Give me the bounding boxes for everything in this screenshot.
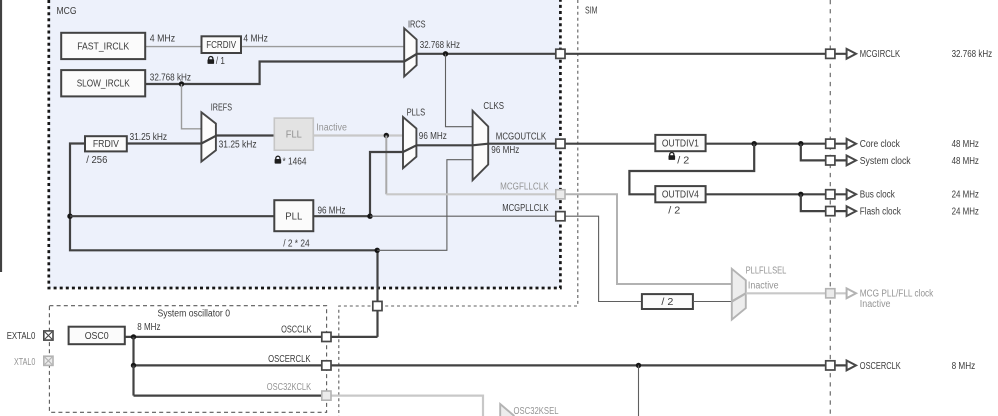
- port System clock (SIM border): [826, 156, 835, 165]
- svg-text:48 MHz: 48 MHz: [952, 139, 979, 150]
- arrow System clock: [847, 156, 856, 166]
- mux CLKS: [473, 111, 489, 180]
- svg-text:96 MHz: 96 MHz: [491, 145, 519, 156]
- wire stub Bus clock port to arrow: [830, 193, 847, 195]
- svg-text:OUTDIV4: OUTDIV4: [662, 190, 699, 201]
- svg-text:FCRDIV: FCRDIV: [206, 40, 236, 51]
- divider / 2 box (PLLFLLSEL path): [642, 294, 693, 309]
- junction Flash clock branch: [798, 192, 803, 197]
- svg-text:FAST_IRCLK: FAST_IRCLK: [77, 41, 129, 52]
- junction PLL ref tap: [67, 214, 72, 219]
- svg-text:/ 2: / 2: [677, 156, 689, 167]
- port OSCCLK (oscillator border): [322, 332, 331, 341]
- junction IRCS out to CLKS: [443, 51, 448, 56]
- SLOW_IRCLK box: [61, 70, 145, 96]
- wire OSC32KCLK to OSC32KSEL (inactive): [326, 396, 483, 416]
- junction SLOW_IRCLK branch: [179, 81, 184, 86]
- svg-text:MCGFLLCLK: MCGFLLCLK: [500, 181, 549, 192]
- FCRDIV lock and ratio / 1: [208, 57, 215, 64]
- wire OSC0 branch down to OSC32KCLK: [132, 365, 134, 395]
- FLL lock and ratio * 1464: [275, 156, 282, 163]
- wire SLOW_IRCLK to IREFS (inactive): [182, 84, 202, 129]
- wire MCGPLLCLK to divider / 2: [560, 216, 642, 301]
- svg-text:/ 256: / 256: [86, 155, 108, 166]
- mux PLLFLLSEL (inactive): [732, 269, 746, 320]
- svg-text:OSCERCLK: OSCERCLK: [268, 354, 311, 365]
- wire PLLS to CLKS: [416, 144, 472, 146]
- wire OSC0 branch down to OSCERCLK: [132, 337, 134, 366]
- mux PLLS: [403, 117, 416, 168]
- FLL box (inactive): [274, 118, 313, 150]
- wire FRDIV to IREFS: [127, 142, 202, 144]
- XTAL0 pin (inactive): [44, 356, 53, 365]
- svg-text:96 MHz: 96 MHz: [318, 206, 346, 217]
- port MCG PLL/FLL clock (SIM border): [826, 289, 835, 298]
- arrow OSCERCLK: [847, 361, 856, 371]
- svg-text:* 1464: * 1464: [283, 157, 307, 168]
- wire MCGFLLCLK row to port (inactive): [386, 193, 560, 195]
- svg-text:32.768 kHz: 32.768 kHz: [420, 40, 460, 51]
- svg-text:24 MHz: 24 MHz: [952, 207, 979, 218]
- wire OSCERCLK row: [134, 364, 831, 366]
- OUTDIV4 box: [655, 186, 705, 202]
- svg-text:31.25 kHz: 31.25 kHz: [219, 140, 257, 151]
- wire PLLFLLSEL to MCG PLL/FLL clock (inactive): [746, 292, 831, 294]
- junction System clock branch: [798, 141, 803, 146]
- svg-text:System oscillator 0: System oscillator 0: [158, 308, 231, 319]
- svg-text:PLL: PLL: [285, 211, 302, 222]
- svg-text:MCG PLL/FLL clock: MCG PLL/FLL clock: [860, 289, 934, 300]
- svg-text:PLLS: PLLS: [407, 108, 426, 119]
- junction OSCERCLK to OSC32KSEL: [636, 363, 641, 368]
- arrow MCG PLL/FLL clock: [847, 288, 856, 298]
- svg-text:Core clock: Core clock: [860, 139, 901, 150]
- clipped wire at left edge: [0, 0, 2, 272]
- junction OSC0 output: [131, 334, 136, 339]
- wire OSC32KCLK to port: [134, 395, 327, 397]
- FCRDIV box: [202, 36, 242, 53]
- wire OSCCLK to PLL: [70, 215, 274, 217]
- svg-text:MCGPLLCLK: MCGPLLCLK: [502, 203, 549, 214]
- wire OUTDIV1 to Core clock: [706, 143, 831, 145]
- junction PLL output: [367, 214, 372, 219]
- wire OSCCLK riser into MCG: [376, 250, 378, 337]
- svg-text:/ 2: / 2: [668, 206, 680, 217]
- EXTAL0 pin: [44, 331, 53, 340]
- svg-text:31.25 kHz: 31.25 kHz: [130, 132, 168, 143]
- port OSCCLK (SIM border): [373, 301, 382, 310]
- wire IRCS output / MCGIRCLK row: [417, 53, 831, 55]
- wire OSCCLK to CLKS ext ref (inactive): [377, 160, 472, 251]
- wire OUTDIV4 to Bus clock: [706, 193, 831, 195]
- System oscillator 0 dashed box: [49, 306, 326, 413]
- svg-text:MCGOUTCLK: MCGOUTCLK: [496, 131, 547, 142]
- wire FLL output to PLLS (inactive): [313, 134, 403, 136]
- svg-text:EXTAL0: EXTAL0: [7, 331, 36, 342]
- port MCGIRCLK (MCG border): [556, 49, 565, 58]
- wire stub Flash clock port to arrow: [830, 210, 847, 212]
- wire stub Core clock port to arrow: [830, 143, 847, 145]
- svg-text:IRCS: IRCS: [408, 19, 426, 30]
- PLL box: [274, 200, 313, 231]
- svg-text:OUTDIV1: OUTDIV1: [662, 138, 699, 149]
- svg-text:8 MHz: 8 MHz: [952, 361, 976, 372]
- svg-text:Inactive: Inactive: [316, 122, 347, 133]
- svg-text:OSC32KSEL: OSC32KSEL: [514, 406, 559, 416]
- svg-text:FRDIV: FRDIV: [93, 139, 119, 150]
- wire PLL to MCGPLLCLK (thin): [370, 215, 560, 217]
- SIM dashed border (left, L-shaped): [339, 0, 578, 416]
- wire FLL down to MCGFLLCLK row (inactive): [385, 136, 387, 195]
- wire to System clock: [801, 144, 831, 161]
- svg-text:SIM: SIM: [585, 5, 598, 16]
- svg-text:OSCCLK: OSCCLK: [281, 324, 312, 335]
- wire FAST_IRCLK to FCRDIV (4 MHz, inactive): [145, 46, 201, 48]
- svg-text:4 MHz: 4 MHz: [150, 33, 175, 44]
- svg-text:96 MHz: 96 MHz: [419, 131, 447, 142]
- MCG region fill: [49, 0, 561, 288]
- svg-text:Inactive: Inactive: [748, 280, 779, 291]
- FAST_IRCLK box: [61, 33, 145, 59]
- port Core clock (SIM border): [826, 139, 835, 148]
- wire to Flash clock: [801, 194, 831, 211]
- svg-text:CLKS: CLKS: [483, 101, 504, 112]
- svg-text:32.768 kHz: 32.768 kHz: [150, 72, 191, 83]
- junction OUTDIV4 feed: [752, 141, 757, 146]
- wire stub MCG PLL/FLL clock port to arrow: [830, 292, 847, 294]
- arrow Core clock: [847, 139, 856, 149]
- svg-text:Inactive: Inactive: [860, 299, 891, 310]
- svg-text:PLLFLLSEL: PLLFLLSEL: [746, 266, 787, 277]
- svg-text:/ 2: / 2: [661, 297, 673, 308]
- port OSCERCLK (oscillator border): [322, 361, 331, 370]
- svg-text:System clock: System clock: [860, 156, 912, 167]
- svg-text:/ 2 * 24: / 2 * 24: [283, 238, 310, 249]
- MCG dotted border: [49, 0, 561, 288]
- wire / 2 to PLLFLLSEL: [693, 301, 732, 303]
- svg-text:24 MHz: 24 MHz: [952, 190, 979, 201]
- OUTDIV1 box: [655, 135, 705, 151]
- OUTDIV1 lock and ratio / 2: [669, 153, 676, 160]
- wire OUTDIV1 to OUTDIV4: [629, 144, 754, 195]
- svg-text:FLL: FLL: [286, 129, 302, 140]
- junction FLL output: [384, 133, 389, 138]
- mux OSC32KSEL (inactive, clipped): [500, 404, 514, 416]
- junction OSCCLK riser: [375, 248, 380, 253]
- svg-text:4 MHz: 4 MHz: [243, 33, 268, 44]
- svg-text:48 MHz: 48 MHz: [952, 156, 979, 167]
- wire stub OSCERCLK port to arrow: [830, 364, 847, 366]
- mux IREFS: [201, 112, 216, 161]
- svg-text:Bus clock: Bus clock: [860, 190, 896, 201]
- SIM dashed border (right): [829, 0, 831, 416]
- wire IRCS to CLKS internal ref (inactive): [446, 54, 473, 127]
- arrow MCGIRCLK: [847, 49, 856, 59]
- port MCGIRCLK (SIM border): [826, 49, 835, 58]
- svg-text:OSCERCLK: OSCERCLK: [860, 361, 901, 372]
- wire CLKS to MCGOUTCLK port and OUTDIV1: [488, 143, 655, 145]
- port OSC32KCLK (oscillator border, inactive): [322, 391, 331, 400]
- wire PLL to PLLS: [313, 152, 403, 216]
- wire OSC0 to OSCCLK riser: [125, 336, 378, 338]
- arrow Flash clock: [847, 206, 856, 216]
- port Bus clock (SIM border): [826, 190, 835, 199]
- port MCGOUTCLK (MCG border): [556, 139, 565, 148]
- mux IRCS: [404, 28, 416, 76]
- port OSCERCLK (SIM border): [826, 361, 835, 370]
- wire FCRDIV to IRCS (4 MHz, inactive): [241, 46, 404, 48]
- port MCGPLLCLK (MCG border): [556, 212, 565, 221]
- wire IREFS to FLL: [216, 134, 274, 136]
- wire SLOW_IRCLK to IRCS (active): [145, 62, 404, 85]
- OSC0 box: [69, 327, 125, 345]
- svg-text:Flash clock: Flash clock: [860, 207, 902, 218]
- wire stub System clock port to arrow: [830, 159, 847, 161]
- svg-text:OSC32KCLK: OSC32KCLK: [267, 382, 312, 393]
- junction OSCERCLK branch: [131, 363, 136, 368]
- svg-text:/ 1: / 1: [216, 56, 225, 67]
- wire OSCERCLK to OSC32KSEL (inactive): [638, 365, 640, 416]
- svg-text:8 MHz: 8 MHz: [137, 322, 160, 333]
- svg-text:SLOW_IRCLK: SLOW_IRCLK: [77, 79, 130, 90]
- FRDIV box: [85, 136, 127, 151]
- svg-text:IREFS: IREFS: [211, 102, 232, 113]
- wire stub MCGIRCLK port to arrow: [830, 53, 847, 55]
- wire OSCCLK distribution to FRDIV: [70, 144, 377, 251]
- arrow Bus clock: [847, 189, 856, 199]
- port MCGFLLCLK (MCG border, inactive): [556, 190, 565, 199]
- svg-text:XTAL0: XTAL0: [14, 357, 36, 368]
- svg-text:OSC0: OSC0: [85, 331, 109, 342]
- svg-text:MCGIRCLK: MCGIRCLK: [860, 49, 901, 60]
- svg-text:MCG: MCG: [57, 6, 77, 17]
- svg-text:32.768 kHz: 32.768 kHz: [952, 49, 993, 60]
- wire MCGFLLCLK to PLLFLLSEL (inactive): [560, 194, 731, 284]
- port Flash clock (SIM border): [826, 207, 835, 216]
